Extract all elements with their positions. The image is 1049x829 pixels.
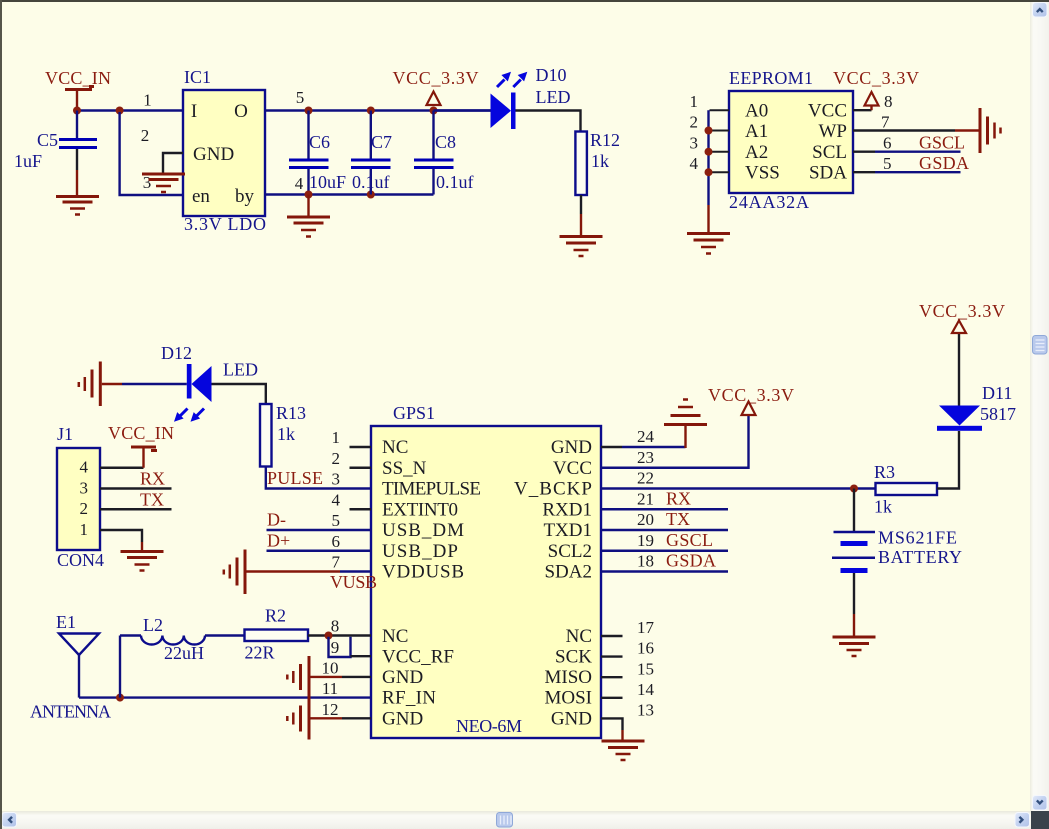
svg-text:10uF: 10uF xyxy=(309,172,346,192)
wire pin8 to pin9 jog xyxy=(329,637,351,657)
GPS1 pin 4 stub xyxy=(350,508,372,510)
wire R3 to D11 xyxy=(937,431,959,489)
svg-text:VCC_IN: VCC_IN xyxy=(45,68,111,88)
svg-text:SCL2: SCL2 xyxy=(548,541,592,562)
svg-text:R13: R13 xyxy=(276,403,306,423)
svg-text:MOSI: MOSI xyxy=(544,688,592,709)
capacitor C6 top stem xyxy=(307,111,309,159)
LED D10 triangle xyxy=(491,94,512,129)
svg-text:3: 3 xyxy=(332,470,341,489)
svg-text:SCL: SCL xyxy=(812,142,847,163)
top window border xyxy=(0,0,1049,2)
svg-text:8: 8 xyxy=(884,92,893,111)
wire antenna to RF_IN xyxy=(79,696,371,698)
vertical scrollbar track xyxy=(1030,2,1049,812)
scrollbar vertical thumb xyxy=(1033,336,1048,355)
svg-text:L2: L2 xyxy=(143,615,163,635)
wire EEPROM address bus vertical xyxy=(707,110,709,205)
svg-text:4: 4 xyxy=(690,154,699,173)
capacitor C6 bottom stem xyxy=(307,169,309,195)
wire EEPROM ground stem xyxy=(707,205,709,234)
svg-text:IC1: IC1 xyxy=(184,67,211,87)
svg-text:3.3V LDO: 3.3V LDO xyxy=(184,214,266,234)
LED D12 triangle xyxy=(192,366,212,402)
svg-text:VCC: VCC xyxy=(553,458,592,479)
wire pin18 SDA2 xyxy=(601,570,728,572)
svg-text:RX: RX xyxy=(140,469,165,489)
GPS1 left pin names upper xyxy=(382,437,481,583)
svg-text:D+: D+ xyxy=(267,531,290,551)
svg-text:16: 16 xyxy=(637,639,654,658)
svg-text:10: 10 xyxy=(322,659,339,678)
GPS1 pin 1 stub xyxy=(350,446,372,448)
LED D12 cathode bar xyxy=(187,364,192,399)
svg-text:1k: 1k xyxy=(591,151,609,171)
svg-text:GSCL: GSCL xyxy=(919,133,965,153)
svg-text:CON4: CON4 xyxy=(57,550,104,570)
junction at EEPROM pin3 xyxy=(705,148,713,156)
wire top bus to IC1 xyxy=(77,109,183,111)
svg-text:C6: C6 xyxy=(309,132,330,152)
svg-text:ANTENNA: ANTENNA xyxy=(30,702,111,722)
svg-text:7: 7 xyxy=(881,113,890,132)
scrollbar left button xyxy=(2,813,17,828)
svg-text:PULSE: PULSE xyxy=(267,468,323,488)
svg-text:0.1uf: 0.1uf xyxy=(352,172,390,192)
horizontal scrollbar track xyxy=(0,811,1049,829)
wire antenna stem xyxy=(78,655,80,698)
svg-text:14: 14 xyxy=(637,680,655,699)
svg-text:1: 1 xyxy=(332,428,341,447)
svg-text:RX: RX xyxy=(666,488,691,508)
capacitor C8 plates xyxy=(414,160,454,168)
ground below J1 xyxy=(121,552,164,571)
scrollbar down button xyxy=(1033,796,1048,811)
wire branch to L2 xyxy=(120,634,141,636)
wire pin20 TXD1 xyxy=(601,529,728,531)
wire VCC_IN stem at J1 xyxy=(142,448,144,468)
wire L2 to R2 xyxy=(205,634,245,636)
capacitor C7 top stem xyxy=(370,111,372,159)
GPS1 pin 16 stub xyxy=(601,655,623,657)
LED D10 anode wire tail xyxy=(434,109,491,111)
J1 pin 3 wire RX xyxy=(100,487,172,489)
ground below R12 xyxy=(560,237,603,257)
ground right-pointing at EEPROM WP xyxy=(980,108,1001,153)
wire C6 ground stem xyxy=(307,195,309,218)
GPS1 pin 2 stub xyxy=(350,467,372,469)
junction at C8 top xyxy=(430,107,438,115)
junction at EEPROM pin2 xyxy=(705,127,713,135)
J1 pin 4 wire to VCC_IN xyxy=(100,467,144,469)
svg-text:21: 21 xyxy=(637,489,654,508)
inductor L2 coil xyxy=(141,636,205,645)
capacitor C6 plates xyxy=(289,160,329,168)
ground up-pointing at GPS pin24 xyxy=(664,400,707,425)
svg-text:VSS: VSS xyxy=(745,163,780,184)
svg-text:11: 11 xyxy=(322,679,338,698)
svg-text:D10: D10 xyxy=(536,65,567,85)
wire C5 bottom stem xyxy=(76,149,78,170)
svg-text:SCK: SCK xyxy=(555,647,592,668)
ground below battery xyxy=(833,637,876,656)
ground left-pointing at D12 xyxy=(79,362,101,407)
svg-text:VCC: VCC xyxy=(808,101,847,122)
svg-text:6: 6 xyxy=(883,134,892,153)
diode D11 cathode bar xyxy=(937,426,982,431)
wire C5 ground stem xyxy=(76,170,78,196)
wire VDDUSB to ground xyxy=(247,570,341,572)
svg-text:R3: R3 xyxy=(874,462,895,482)
EEPROM left pin stubs xyxy=(710,110,730,172)
svg-text:EXTINT0: EXTINT0 xyxy=(382,499,458,520)
ground left-pointing at VDDUSB xyxy=(224,550,245,595)
junction at VCC_IN/C5 xyxy=(73,107,81,115)
svg-text:13: 13 xyxy=(637,701,654,720)
svg-text:VUSB: VUSB xyxy=(330,572,377,592)
ground below GPS pin13 xyxy=(602,741,645,760)
svg-text:VCC_3.3V: VCC_3.3V xyxy=(393,68,479,88)
resistor R12 body xyxy=(575,132,587,196)
svg-text:TX: TX xyxy=(140,490,164,510)
GPS1 pin 15 stub xyxy=(601,676,623,678)
wire pin10 to ground xyxy=(311,676,343,678)
svg-text:1k: 1k xyxy=(277,424,295,444)
diode D11 triangle xyxy=(939,406,980,426)
junction at battery xyxy=(850,485,858,493)
EEPROM pin 6 wire GSCL xyxy=(853,150,875,152)
svg-text:A2: A2 xyxy=(745,142,768,163)
svg-text:VCC_3.3V: VCC_3.3V xyxy=(919,301,1005,321)
svg-text:1: 1 xyxy=(80,520,89,539)
left window border xyxy=(0,0,2,829)
svg-text:22uH: 22uH xyxy=(164,643,204,663)
svg-text:USB_DP: USB_DP xyxy=(382,541,458,562)
wire pin13 GND to ground xyxy=(601,718,623,730)
wire bottom bus by-pin to C8 xyxy=(265,193,434,195)
wire pin24 GND to upper ground xyxy=(601,446,622,448)
svg-text:2: 2 xyxy=(80,499,89,518)
corner resize box xyxy=(1031,811,1049,829)
svg-text:LED: LED xyxy=(536,87,571,107)
J1 pin 2 wire TX xyxy=(100,508,172,510)
svg-text:24AA32A: 24AA32A xyxy=(729,192,809,212)
junction at pin8 xyxy=(325,632,333,640)
wire R2 to pin8 xyxy=(308,634,371,636)
wire USB_DM D- xyxy=(267,529,372,531)
svg-text:by: by xyxy=(235,186,255,207)
ground below EEPROM xyxy=(687,234,730,254)
GPS module GPS1 body xyxy=(371,426,601,738)
svg-text:LED: LED xyxy=(223,360,258,380)
svg-text:9: 9 xyxy=(331,638,340,657)
svg-text:1: 1 xyxy=(143,91,152,110)
svg-text:1k: 1k xyxy=(874,497,892,517)
ground below C5 xyxy=(56,197,99,215)
svg-text:C5: C5 xyxy=(37,130,58,150)
EEPROM pin 5 wire GSDA xyxy=(853,171,875,173)
svg-text:7: 7 xyxy=(332,553,341,572)
connector J1 body xyxy=(57,448,100,550)
wire 3.3V bus xyxy=(309,109,491,111)
svg-text:D11: D11 xyxy=(982,383,1012,403)
resistor R2 body xyxy=(245,630,309,642)
power port VCC_IN bar at J1 xyxy=(131,447,157,451)
capacitor C5 top stem xyxy=(76,111,78,139)
IC1 pin 5 wire xyxy=(265,109,309,111)
ground left-pointing at GPS pin10 xyxy=(287,656,309,698)
svg-text:5817: 5817 xyxy=(980,404,1016,424)
svg-text:VCC_RF: VCC_RF xyxy=(382,647,454,668)
svg-text:VDDUSB: VDDUSB xyxy=(382,562,464,583)
LED D12 light arrows xyxy=(180,409,204,417)
svg-text:0.1uf: 0.1uf xyxy=(436,172,474,192)
svg-text:3: 3 xyxy=(690,134,699,153)
svg-text:NC: NC xyxy=(382,626,408,647)
svg-text:en: en xyxy=(192,186,210,207)
svg-text:RXD1: RXD1 xyxy=(542,499,592,520)
junction at C7 bottom xyxy=(367,191,375,199)
svg-text:GND: GND xyxy=(551,708,592,729)
svg-text:USB_DM: USB_DM xyxy=(382,520,464,541)
wire pin22 V_BCKP xyxy=(601,487,876,489)
svg-text:8: 8 xyxy=(331,617,340,636)
GPS1 left pin numbers 1-7 xyxy=(332,428,341,572)
svg-text:BATTERY: BATTERY xyxy=(878,547,962,567)
ground left-pointing at GPS pin12 xyxy=(287,698,309,740)
wire pin23 VCC to power xyxy=(601,416,749,468)
svg-text:I: I xyxy=(191,101,197,122)
svg-text:12: 12 xyxy=(322,700,339,719)
svg-text:4: 4 xyxy=(332,490,341,509)
svg-text:MS621FE: MS621FE xyxy=(878,528,957,548)
GPS1 right pin numbers 17-13 xyxy=(637,618,655,720)
svg-text:C7: C7 xyxy=(371,132,392,152)
svg-text:TXD1: TXD1 xyxy=(543,520,592,541)
svg-text:SDA2: SDA2 xyxy=(544,562,592,583)
GPS1 pin 9 stub xyxy=(351,655,372,657)
power port VCC_3.3V arrow top right xyxy=(952,321,966,334)
svg-text:23: 23 xyxy=(637,448,654,467)
ground below IC1 pin2 xyxy=(142,174,185,192)
svg-text:VCC_IN: VCC_IN xyxy=(108,423,174,443)
antenna E1 symbol xyxy=(59,634,99,656)
svg-text:D-: D- xyxy=(267,510,286,530)
GPS1 right pin numbers 24-18 xyxy=(637,427,655,571)
svg-text:D12: D12 xyxy=(161,343,192,363)
capacitor C7 plates xyxy=(351,160,391,168)
svg-text:NEO-6M: NEO-6M xyxy=(456,716,522,736)
junction at enable branch xyxy=(116,107,124,115)
op-amp regulator IC1 body xyxy=(183,90,265,216)
wire R13 to TIMEPULSE xyxy=(266,467,371,489)
svg-text:GSDA: GSDA xyxy=(666,551,716,571)
junction at C7 top xyxy=(367,107,375,115)
svg-text:A0: A0 xyxy=(745,101,768,122)
svg-text:E1: E1 xyxy=(56,612,76,632)
scrollbar right button xyxy=(1015,813,1030,828)
svg-text:TIMEPULSE: TIMEPULSE xyxy=(382,479,481,500)
capacitor C5 plates xyxy=(59,140,97,148)
svg-text:RF_IN: RF_IN xyxy=(382,688,436,709)
svg-text:18: 18 xyxy=(637,552,654,571)
GPS1 pin 14 stub xyxy=(601,697,623,699)
wire enable branch vertical xyxy=(120,112,183,195)
svg-text:SS_N: SS_N xyxy=(382,458,427,479)
resistor R13 body xyxy=(260,404,272,467)
junction at C6 top xyxy=(305,107,313,115)
ground below C6 xyxy=(287,217,330,237)
svg-text:GSCL: GSCL xyxy=(666,530,713,550)
wire D12 anode to R13 xyxy=(212,384,266,404)
power port VCC_3.3V arrow at EEPROM xyxy=(865,92,879,106)
svg-text:VCC_3.3V: VCC_3.3V xyxy=(708,385,794,405)
wire D11 anode to power xyxy=(958,333,960,406)
svg-text:5: 5 xyxy=(296,88,305,107)
power port VCC_3.3V arrow xyxy=(427,92,441,106)
scrollbar horizontal thumb xyxy=(497,813,513,828)
svg-text:GND: GND xyxy=(382,708,423,729)
svg-text:20: 20 xyxy=(637,510,654,529)
svg-text:1: 1 xyxy=(690,92,699,111)
GPS1 left pin names lower xyxy=(382,626,454,729)
wire battery bottom stem xyxy=(853,573,855,614)
IC1 pin 2 GND hook wire xyxy=(163,153,183,173)
svg-text:GND: GND xyxy=(551,437,592,458)
svg-text:O: O xyxy=(234,101,248,122)
GPS1 pin 17 stub xyxy=(601,635,623,637)
resistor R3 body xyxy=(876,483,938,495)
J1 pin 1 wire to ground xyxy=(100,530,142,542)
wire pin19 SCL2 xyxy=(601,550,728,552)
svg-text:2: 2 xyxy=(332,449,341,468)
wire R12 to ground xyxy=(580,195,582,214)
svg-text:2: 2 xyxy=(141,126,150,145)
power port VCC_3.3V arrow at GPS xyxy=(742,402,756,416)
LED D10 cathode bar xyxy=(511,93,516,130)
svg-text:15: 15 xyxy=(637,659,654,678)
svg-text:C8: C8 xyxy=(435,132,456,152)
svg-text:5: 5 xyxy=(883,154,892,173)
svg-text:J1: J1 xyxy=(57,424,73,444)
svg-text:22: 22 xyxy=(637,469,654,488)
svg-text:4: 4 xyxy=(295,174,304,193)
capacitor C8 bottom stem xyxy=(432,169,434,195)
power port VCC_IN bar symbol xyxy=(65,87,94,90)
svg-text:3: 3 xyxy=(80,478,89,497)
svg-text:TX: TX xyxy=(666,509,690,529)
svg-text:19: 19 xyxy=(637,531,654,550)
scrollbar up button xyxy=(1033,3,1048,18)
GPS1 right pin names lower xyxy=(544,626,592,729)
wire D10 to R12 xyxy=(516,111,581,132)
EEPROM1 body xyxy=(729,91,853,193)
junction at EEPROM pin4 xyxy=(705,168,713,176)
wire antenna branch vertical xyxy=(119,636,121,698)
svg-text:WP: WP xyxy=(819,121,848,142)
EEPROM pin 7 wire xyxy=(853,129,875,131)
svg-text:NC: NC xyxy=(382,437,408,458)
svg-text:NC: NC xyxy=(566,626,592,647)
svg-text:A1: A1 xyxy=(745,121,768,142)
junction at antenna branch xyxy=(116,694,124,702)
EEPROM pin 8 stub xyxy=(853,109,872,111)
junction at C6 bottom xyxy=(305,191,313,199)
svg-text:R12: R12 xyxy=(590,130,620,150)
svg-text:GND: GND xyxy=(382,667,423,688)
svg-text:2: 2 xyxy=(690,113,699,132)
svg-text:6: 6 xyxy=(332,532,341,551)
svg-text:24: 24 xyxy=(637,427,655,446)
wire USB_DP D+ xyxy=(267,550,372,552)
GPS1 right pin names upper xyxy=(514,437,592,583)
svg-text:MISO: MISO xyxy=(544,667,592,688)
svg-text:SDA: SDA xyxy=(809,163,847,184)
svg-text:V_BCKP: V_BCKP xyxy=(514,479,592,500)
svg-text:3: 3 xyxy=(143,173,152,192)
svg-text:VCC_3.3V: VCC_3.3V xyxy=(833,68,919,88)
capacitor C8 top stem xyxy=(432,111,434,159)
svg-text:GSDA: GSDA xyxy=(919,153,969,173)
svg-text:5: 5 xyxy=(332,511,341,530)
svg-text:EEPROM1: EEPROM1 xyxy=(729,68,813,88)
wire ground to D12 cathode xyxy=(102,383,122,385)
capacitor C7 bottom stem xyxy=(370,169,372,195)
wire VCC_IN stem xyxy=(76,90,78,108)
svg-text:R2: R2 xyxy=(265,606,286,626)
svg-text:17: 17 xyxy=(637,618,655,637)
wire pin12 to ground xyxy=(311,717,343,719)
svg-text:GPS1: GPS1 xyxy=(393,403,435,423)
svg-text:GND: GND xyxy=(193,144,234,165)
battery MS621FE plates xyxy=(832,532,875,571)
wire pin21 RXD1 xyxy=(601,508,728,510)
wire battery top stem xyxy=(853,489,855,532)
svg-text:22R: 22R xyxy=(245,643,275,663)
LED D10 light arrows xyxy=(497,80,521,88)
svg-text:4: 4 xyxy=(80,458,89,477)
svg-text:1uF: 1uF xyxy=(14,151,42,171)
